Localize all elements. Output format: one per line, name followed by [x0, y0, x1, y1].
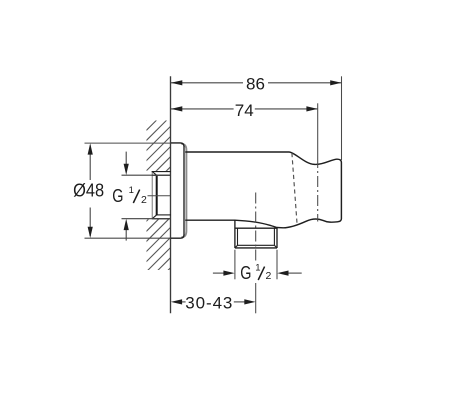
svg-text:2: 2 [141, 194, 147, 206]
svg-text:86: 86 [246, 74, 265, 93]
svg-text:2: 2 [266, 270, 272, 282]
svg-text:74: 74 [235, 101, 254, 120]
svg-text:G: G [112, 186, 123, 206]
svg-text:G: G [240, 263, 251, 283]
svg-text:1: 1 [129, 185, 134, 196]
svg-text:1: 1 [255, 262, 260, 273]
svg-text:30-43: 30-43 [185, 293, 233, 312]
svg-text:Ø48: Ø48 [73, 181, 104, 201]
